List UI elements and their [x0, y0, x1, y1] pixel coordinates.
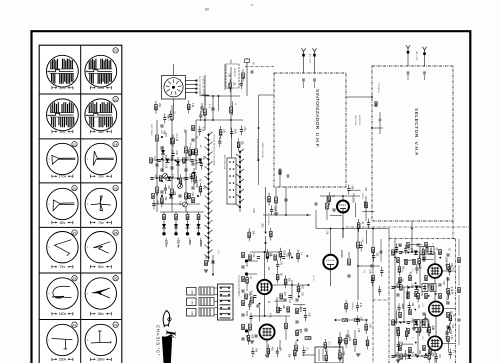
wire [417, 322, 419, 356]
signal arrow [212, 274, 214, 276]
wire [249, 306, 251, 310]
test point number 29 [72, 276, 77, 281]
junction [357, 265, 359, 267]
wire [212, 96, 214, 120]
wire [201, 109, 203, 113]
capacitor Cant2 [313, 79, 316, 81]
svg-text:220k: 220k [363, 201, 365, 207]
test point number 31 [72, 322, 77, 327]
resistor R119 [161, 198, 164, 203]
wire [397, 347, 399, 351]
wire [360, 248, 362, 252]
wire [435, 353, 437, 357]
junction [285, 214, 287, 216]
capacitor C264 [150, 178, 153, 180]
capacitor C134 [230, 132, 233, 134]
waveform trace row6 right [92, 288, 110, 298]
wire [229, 79, 231, 83]
wire [172, 144, 174, 148]
resistor R136 [248, 232, 251, 237]
junction [394, 251, 396, 253]
wire [398, 263, 400, 267]
wire [156, 120, 158, 212]
diode D293 [414, 251, 418, 255]
waveform trace row2 left [47, 102, 74, 127]
wire [407, 75, 409, 80]
resistor R17 [375, 102, 377, 107]
resistor R27 [249, 324, 252, 330]
contact dot [229, 175, 231, 177]
wire [446, 277, 448, 291]
resistor R26 [277, 307, 280, 313]
wire [285, 329, 287, 340]
wire [189, 146, 191, 150]
resistor R31 [205, 261, 208, 266]
amplitude label 250v [52, 358, 73, 362]
board pin [228, 294, 230, 296]
waveform trace row6 left [52, 286, 72, 298]
capacitor C319 [446, 302, 449, 304]
resistor R82 [372, 247, 375, 252]
wire [204, 96, 206, 106]
capacitor C321 [446, 326, 449, 328]
junction [417, 355, 419, 357]
capacitor C280 [160, 169, 163, 171]
svg-text:90v: 90v [60, 221, 66, 225]
wire [339, 349, 341, 353]
junction [421, 251, 423, 253]
capacitor C253 [338, 342, 341, 344]
resistor R2 [230, 107, 233, 113]
wire [219, 143, 221, 147]
wire [204, 75, 206, 130]
wire [162, 146, 164, 172]
svg-text:220k: 220k [299, 307, 301, 313]
wire [354, 203, 356, 217]
diode D309 [407, 355, 411, 359]
capacitor C1 [211, 108, 214, 110]
capacitor C337 [241, 314, 244, 316]
wire [171, 105, 173, 212]
svg-text:26: 26 [114, 186, 118, 190]
resistor R115 [189, 150, 192, 155]
junction [156, 159, 158, 161]
resistor R29 [295, 345, 298, 351]
wire [381, 267, 383, 271]
capacitor C339 [241, 338, 244, 340]
wire [458, 295, 460, 316]
wire [238, 148, 240, 152]
svg-text:DET. VIDEO: DET. VIDEO [150, 124, 152, 136]
wire [185, 130, 187, 212]
wire [442, 270, 456, 272]
wire [195, 120, 197, 170]
resistor R220 [417, 293, 420, 298]
junction [171, 119, 173, 121]
junction [394, 355, 396, 357]
svg-text:220k: 220k [401, 304, 403, 310]
capacitor C3 [170, 167, 173, 169]
wire [392, 286, 429, 288]
wire [250, 315, 290, 317]
wire [357, 321, 359, 325]
junction [161, 136, 163, 138]
svg-text:220k: 220k [245, 311, 247, 317]
svg-text:PCF80: PCF80 [275, 297, 279, 307]
wire [357, 315, 359, 319]
resistor R323 [245, 294, 248, 299]
contact dot [233, 189, 235, 191]
amplitude label 74v [52, 265, 73, 269]
junction [371, 96, 373, 98]
sound board outline [218, 284, 234, 320]
wire [330, 269, 332, 286]
junction [394, 321, 396, 323]
junction [407, 252, 409, 254]
wire [214, 307, 218, 309]
svg-text:AL C.I. DE SONIDO: AL C.I. DE SONIDO [198, 76, 201, 97]
junction [403, 355, 405, 357]
resistor R59 [407, 328, 410, 333]
junction [298, 296, 300, 298]
junction [342, 195, 344, 197]
wire [365, 321, 367, 325]
amplitude label 10v [90, 175, 111, 179]
junction [400, 322, 402, 324]
tube socket circle [164, 78, 183, 97]
board pin [220, 300, 222, 302]
junction [415, 354, 417, 356]
amplitude label 280v [90, 358, 111, 362]
junction [297, 339, 299, 341]
wire [458, 265, 460, 286]
diode D263 [198, 159, 202, 163]
wire [448, 329, 450, 333]
svg-text:27: 27 [73, 231, 77, 235]
wire [380, 239, 382, 262]
resistor R16 [279, 170, 281, 175]
capacitor C186 [404, 249, 407, 251]
capacitor C61 [426, 330, 429, 332]
wire [175, 212, 177, 233]
capacitor C296 [391, 287, 394, 289]
wire [446, 334, 448, 338]
svg-text:280v: 280v [97, 358, 105, 362]
capacitor C300 [423, 287, 426, 289]
wire [191, 173, 193, 177]
capacitor C340 [295, 299, 298, 301]
resistor R341 [296, 308, 299, 313]
amplitude label 90v [52, 221, 73, 225]
capacitor C5 [194, 181, 197, 183]
output transformer box [315, 347, 343, 363]
capacitor C113 [169, 114, 172, 116]
wire [214, 313, 218, 315]
resistor R120 [172, 138, 175, 143]
wire [285, 285, 287, 289]
wire [164, 190, 166, 194]
junction [212, 95, 214, 97]
wire [250, 313, 252, 317]
junction [291, 284, 293, 286]
wire [240, 85, 242, 89]
capacitor C324 [253, 296, 256, 298]
capacitor C13 [332, 209, 335, 211]
resistor R216 [398, 267, 401, 272]
tube socket outline [162, 76, 186, 100]
wire [325, 351, 327, 355]
wire [285, 187, 287, 215]
wire [199, 132, 201, 136]
svg-text:250v: 250v [59, 358, 67, 362]
resistor R318 [447, 288, 450, 293]
wire [289, 249, 291, 253]
svg-text:MODELOS: MODELOS [358, 115, 360, 126]
wire [291, 280, 293, 300]
oscillogram circle row6 right [85, 278, 116, 309]
resistor R162 [297, 286, 300, 291]
junction [399, 321, 401, 323]
resistor R265 [159, 176, 162, 181]
capacitor C348 [282, 257, 285, 259]
amplitude label 80v [90, 265, 111, 269]
test point number 28 [113, 230, 118, 235]
wire [231, 130, 233, 158]
svg-text:EBL21: EBL21 [446, 295, 450, 304]
wire [240, 125, 242, 129]
antenna UHF dipole b [313, 48, 317, 56]
wire [189, 155, 191, 159]
junction [371, 127, 373, 129]
wire [303, 82, 305, 88]
resistor R338 [242, 324, 245, 329]
wire [428, 359, 430, 363]
resistor R5 [185, 147, 188, 153]
capacitor C166 [367, 223, 370, 225]
oscillogram circle row6 left [47, 278, 78, 309]
junction [414, 320, 416, 322]
contact dot [233, 182, 235, 184]
resistor R50 [425, 275, 428, 280]
wire [406, 336, 408, 340]
resistor R247 [294, 350, 297, 355]
wire [161, 203, 163, 207]
resistor R294 [422, 250, 425, 255]
capacitor C235 [408, 306, 411, 308]
capacitor C189 [397, 307, 400, 309]
waveform trace row2 right [85, 102, 112, 127]
resistor R86 [339, 337, 342, 342]
wire [434, 278, 436, 302]
capacitor C242 [380, 271, 383, 273]
wire [428, 350, 430, 354]
capacitor C258 [158, 160, 161, 162]
wire [398, 309, 400, 313]
wire [397, 350, 399, 363]
antenna VHF dipole b [423, 47, 427, 55]
resistor R87 [354, 339, 357, 344]
oscillogram circle row4 left [47, 188, 78, 219]
wire [392, 321, 428, 323]
wire [372, 229, 374, 301]
resistor R157 [297, 253, 300, 258]
wire [373, 252, 375, 256]
wire [358, 219, 360, 223]
resistor R130 [237, 142, 240, 147]
wire [186, 88, 197, 90]
wire [240, 79, 242, 83]
wire [294, 356, 296, 360]
wire [394, 239, 396, 356]
wire [448, 263, 450, 267]
wire [422, 258, 434, 260]
resistor R103 [155, 104, 158, 109]
junction [258, 127, 260, 129]
wire [267, 354, 269, 358]
capacitor C209 [395, 248, 398, 250]
wire [200, 166, 202, 170]
wire [403, 259, 415, 261]
svg-text:+208v: +208v [199, 238, 203, 247]
wire [153, 206, 155, 210]
wire [205, 95, 240, 97]
wire [214, 300, 218, 302]
capacitor C22 [305, 328, 307, 331]
board pin [220, 294, 222, 296]
tube V5 EBF89 [428, 264, 442, 278]
resistor R314 [439, 293, 442, 298]
board pin [228, 287, 230, 289]
wire [303, 346, 305, 350]
wire [348, 319, 354, 321]
wire [417, 290, 419, 294]
wire [397, 327, 399, 331]
wire [349, 189, 361, 191]
wire [163, 212, 165, 233]
resistor R165 [328, 196, 331, 201]
wire [155, 101, 157, 105]
resistor R142 [246, 278, 249, 283]
terminal [186, 232, 189, 235]
wire [314, 57, 316, 74]
wire [172, 134, 174, 138]
wire [442, 342, 456, 344]
wire [199, 192, 201, 196]
test point number 22 [113, 97, 118, 102]
signal arrow [366, 319, 368, 321]
capacitor C295 [429, 252, 432, 254]
resistor R163 [276, 274, 279, 279]
ground [396, 360, 400, 362]
resistor R254 [339, 353, 342, 358]
capacitor C154 [304, 315, 307, 317]
capacitor C159 [288, 253, 291, 255]
wire [246, 58, 248, 96]
svg-text:22: 22 [114, 97, 118, 101]
trimmer T2 [178, 184, 183, 189]
wire [356, 302, 358, 306]
wire [348, 185, 350, 189]
wire [199, 183, 201, 187]
resistor R7 [156, 187, 159, 193]
wire [360, 242, 362, 246]
signal arrow [307, 214, 309, 216]
wire [218, 97, 220, 111]
waveform trace row7 left [51, 339, 72, 350]
wire [266, 340, 268, 352]
junction [415, 282, 417, 284]
resistor R347 [274, 255, 277, 260]
wire [186, 80, 197, 82]
wire [397, 341, 399, 345]
capacitor C135 [270, 209, 273, 211]
junction [428, 295, 430, 297]
wire [304, 317, 306, 321]
wire [342, 212, 344, 238]
resistor R10 [163, 214, 166, 219]
capacitor C111 [200, 107, 203, 109]
resistor R6 [195, 149, 198, 155]
wire [304, 311, 306, 315]
capacitor C226 [449, 353, 452, 355]
signal arrow [334, 319, 336, 321]
resistor R21 [357, 242, 360, 248]
audio shield top [373, 299, 389, 301]
resistor R322 [447, 336, 450, 341]
wire [338, 338, 340, 342]
wire [268, 193, 270, 197]
oscillogram circle row5 right [85, 232, 116, 263]
oscillogram circle row7 right [85, 324, 116, 355]
contact dot [233, 168, 235, 170]
resistor R183 [345, 338, 348, 343]
wire [160, 211, 204, 213]
vhf corner [452, 65, 454, 67]
wire [428, 333, 430, 337]
resistor R256 [325, 355, 328, 360]
resistor R53 [415, 291, 418, 296]
wire [164, 119, 166, 123]
wire [247, 273, 258, 275]
connector coil 2 [199, 298, 214, 306]
waveform trace row4 right [91, 196, 111, 211]
capacitor C249 [302, 350, 305, 352]
capacitor C315 [446, 254, 449, 256]
wire [373, 258, 375, 262]
wire [367, 219, 369, 223]
wire [449, 349, 451, 353]
wire [326, 209, 328, 220]
wire [356, 308, 358, 312]
capacitor C149 [249, 317, 252, 319]
wire [328, 201, 330, 205]
wire [252, 353, 254, 357]
resistor R329 [287, 307, 290, 312]
capacitor C12 [379, 119, 382, 121]
wire [411, 221, 413, 239]
capacitor C82 [347, 335, 350, 337]
junction [411, 286, 413, 288]
IF transformer T3 [422, 284, 436, 292]
resistor R43 [425, 242, 428, 247]
resistor R208 [448, 267, 451, 272]
wire [231, 134, 233, 138]
resistor R332 [242, 252, 245, 257]
resistor R270 [152, 193, 155, 198]
svg-text:CAB: CAB [191, 300, 194, 305]
ground [274, 213, 278, 215]
wire [403, 287, 405, 322]
